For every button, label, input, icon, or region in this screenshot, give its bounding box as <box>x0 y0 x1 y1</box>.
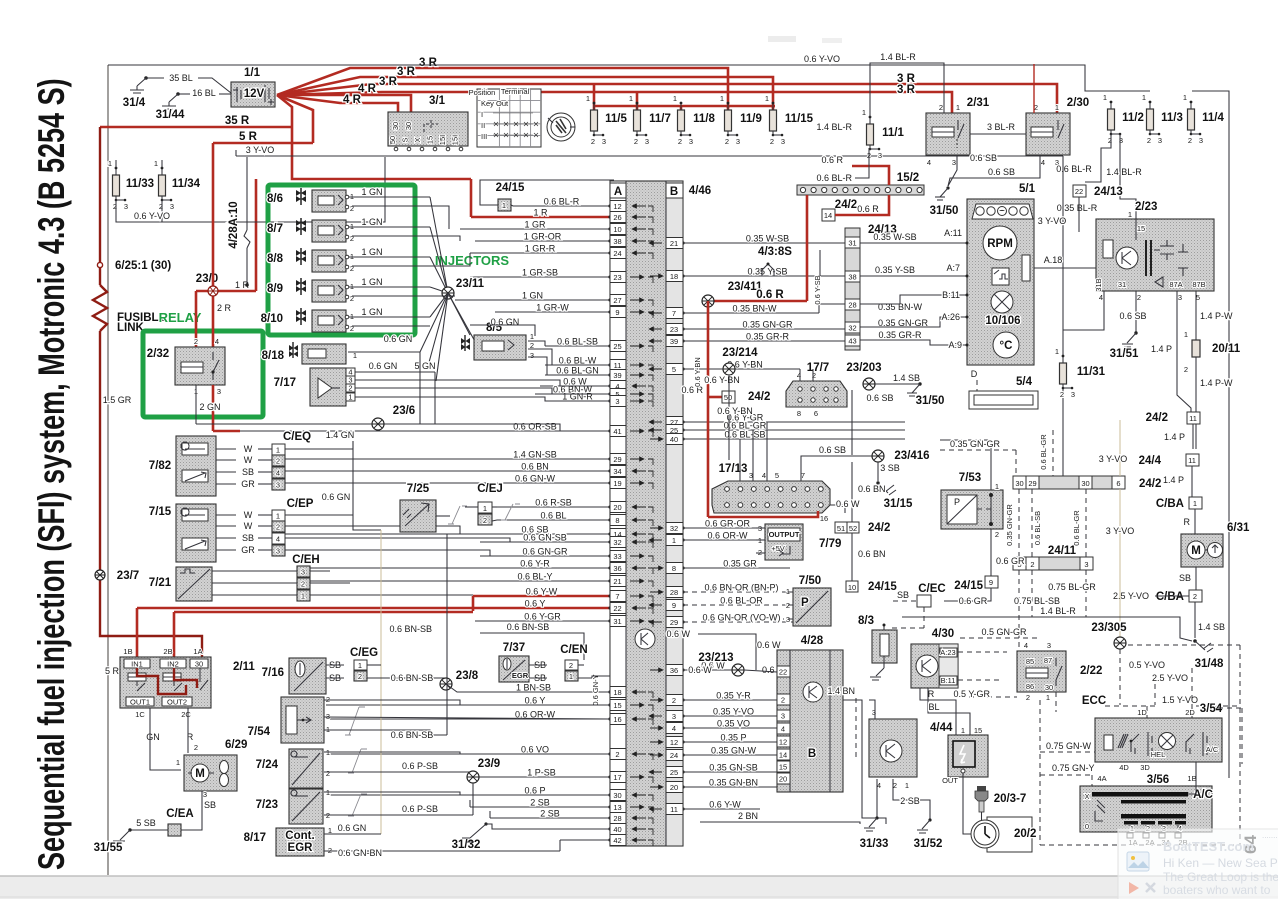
svg-text:3: 3 <box>781 137 785 146</box>
svg-text:1 P-SB: 1 P-SB <box>527 768 556 778</box>
svg-text:2: 2 <box>350 264 354 273</box>
svg-text:Sequential fuel injection (SFI: Sequential fuel injection (SFI) system, … <box>31 78 72 870</box>
svg-text:HEL: HEL <box>1151 750 1166 759</box>
svg-text:0.6 W: 0.6 W <box>666 629 690 639</box>
svg-text:11/4: 11/4 <box>1202 112 1224 124</box>
svg-text:0.6 BL-R: 0.6 BL-R <box>544 197 580 207</box>
svg-text:0.6 BL-OR: 0.6 BL-OR <box>720 596 763 606</box>
svg-text:C/BA: C/BA <box>1156 591 1184 603</box>
svg-text:0.6 GN-SB: 0.6 GN-SB <box>523 533 567 543</box>
svg-text:1 BN-SB: 1 BN-SB <box>516 683 551 693</box>
svg-text:Cont.: Cont. <box>285 830 314 842</box>
svg-text:SB: SB <box>1179 573 1191 583</box>
svg-text:0.6 P-SB: 0.6 P-SB <box>402 804 438 814</box>
svg-text:C/EN: C/EN <box>560 644 587 656</box>
wire SB to C/EA <box>181 791 202 830</box>
svg-text:38: 38 <box>613 237 621 246</box>
connector A35 row <box>592 675 610 677</box>
svg-text:20/2: 20/2 <box>1014 828 1036 840</box>
svg-text:12: 12 <box>613 202 621 211</box>
svg-text:24/13: 24/13 <box>1094 186 1123 198</box>
svg-text:2D: 2D <box>1185 708 1195 717</box>
svg-text:0.35 Y-VO: 0.35 Y-VO <box>713 707 754 717</box>
red wires 0.6 Y-W / 0.6 Y <box>472 596 475 611</box>
svg-text:0.6 BN-SB: 0.6 BN-SB <box>389 624 432 634</box>
svg-text:1 GN: 1 GN <box>361 187 382 197</box>
svg-text:0.6 GN: 0.6 GN <box>384 334 413 344</box>
svg-text:2: 2 <box>893 781 897 790</box>
red drop 23/411 to 17/13 and 50 box <box>707 301 710 517</box>
svg-text:°C: °C <box>1000 340 1013 352</box>
connector 24/15 10 <box>846 581 858 592</box>
svg-text:II: II <box>481 121 485 130</box>
svg-text:C/EA: C/EA <box>166 808 193 820</box>
svg-text:2: 2 <box>672 696 676 705</box>
green highlight injectors box <box>268 185 415 335</box>
svg-text:1: 1 <box>961 726 965 735</box>
svg-text:0.6 SB: 0.6 SB <box>866 393 893 403</box>
svg-text:24/4: 24/4 <box>1139 455 1162 467</box>
svg-text:0.6 Y-GR: 0.6 Y-GR <box>524 612 561 622</box>
wire 0.6 SB to 31/51 <box>1135 291 1137 333</box>
svg-text:OUT1: OUT1 <box>130 698 150 707</box>
B-side wire rows <box>683 242 845 244</box>
svg-text:W: W <box>244 510 253 520</box>
wire 0.6 BN vertical <box>851 462 853 522</box>
svg-text:B:11: B:11 <box>941 676 956 685</box>
svg-text:2: 2 <box>725 137 729 146</box>
svg-text:0.6 BL-GR: 0.6 BL-GR <box>1072 510 1081 546</box>
svg-text:2: 2 <box>995 530 999 539</box>
svg-text:87B: 87B <box>1192 280 1205 289</box>
svg-text:1 GR-R: 1 GR-R <box>525 244 556 254</box>
ignition coil (4/44 right) <box>948 735 988 777</box>
svg-text:12: 12 <box>779 738 787 747</box>
svg-text:2 SB: 2 SB <box>900 796 920 806</box>
wire 0.6 Y-VO drop to 2/30 <box>1033 64 1035 113</box>
svg-text:28: 28 <box>848 301 856 310</box>
svg-text:1: 1 <box>720 94 724 103</box>
svg-text:III: III <box>481 132 487 141</box>
svg-text:29: 29 <box>1028 479 1036 488</box>
svg-text:6/25:1 (30): 6/25:1 (30) <box>115 260 171 272</box>
svg-text:0.6 GN-BN: 0.6 GN-BN <box>338 848 382 858</box>
svg-text:15/2: 15/2 <box>897 172 919 184</box>
svg-text:7: 7 <box>615 592 619 601</box>
svg-text:7/53: 7/53 <box>959 472 981 484</box>
svg-text:3: 3 <box>124 202 128 211</box>
wire 3 Y-VO right vertical <box>1062 156 1064 356</box>
svg-text:4: 4 <box>215 337 219 346</box>
ignition power stage (4/44 left) <box>869 719 917 777</box>
wire 0.6 SB from 23/416 <box>801 456 872 481</box>
svg-text:+5V: +5V <box>771 544 785 553</box>
svg-text:4/28A:10: 4/28A:10 <box>228 201 240 248</box>
svg-text:8/9: 8/9 <box>267 283 283 295</box>
svg-text:1: 1 <box>276 512 280 521</box>
svg-text:31: 31 <box>848 239 856 248</box>
svg-text:0.6 VO: 0.6 VO <box>521 745 549 755</box>
svg-text:GN: GN <box>146 732 160 742</box>
svg-text:SB: SB <box>897 590 909 600</box>
svg-text:23: 23 <box>670 325 678 334</box>
red bus 15/2 strip <box>797 185 924 195</box>
wire 1.4 P via 24/2 11 <box>1177 291 1191 412</box>
svg-text:A:7: A:7 <box>946 263 960 273</box>
svg-text:0.6 P: 0.6 P <box>524 786 545 796</box>
svg-text:4/28: 4/28 <box>801 635 824 647</box>
frame left edge <box>107 65 109 875</box>
svg-text:Hi Ken — New Sea Pro: Hi Ken — New Sea Pro <box>1163 856 1278 870</box>
svg-text:W: W <box>244 521 253 531</box>
svg-text:0.6 SB: 0.6 SB <box>970 153 997 163</box>
svg-text:1: 1 <box>276 446 280 455</box>
svg-text:X: X <box>1084 792 1089 801</box>
svg-text:2/30: 2/30 <box>1067 97 1089 109</box>
svg-text:1.4 BL-R: 1.4 BL-R <box>1040 606 1076 616</box>
fuse 11/7 <box>634 110 641 131</box>
svg-text:0.6 GN-GR: 0.6 GN-GR <box>522 547 568 557</box>
ground 31/4 <box>144 76 148 80</box>
svg-text:23/214: 23/214 <box>722 347 758 359</box>
svg-text:11/8: 11/8 <box>693 113 715 125</box>
svg-text:11/2: 11/2 <box>1122 112 1144 124</box>
svg-text:15I: 15I <box>438 135 447 145</box>
svg-text:18: 18 <box>670 272 678 281</box>
svg-text:1.4 P-W: 1.4 P-W <box>1200 378 1233 388</box>
svg-text:41: 41 <box>613 427 621 436</box>
svg-text:EGR: EGR <box>512 671 529 680</box>
svg-text:11/31: 11/31 <box>1077 366 1106 378</box>
svg-text:29: 29 <box>613 455 621 464</box>
svg-text:3 Y-VO: 3 Y-VO <box>246 145 275 155</box>
svg-text:27: 27 <box>613 296 621 305</box>
svg-text:24: 24 <box>613 249 621 258</box>
red wires inside 2/11 <box>137 668 186 694</box>
svg-text:3 R: 3 R <box>897 84 916 96</box>
svg-text:C/EQ: C/EQ <box>283 431 311 443</box>
svg-text:1 GN: 1 GN <box>361 277 382 287</box>
svg-text:0.6 BL-SB: 0.6 BL-SB <box>724 430 765 440</box>
svg-text:0.6 Y: 0.6 Y <box>525 599 546 609</box>
svg-text:87A: 87A <box>1169 280 1182 289</box>
svg-text:7/54: 7/54 <box>248 726 271 738</box>
svg-text:Terminal: Terminal <box>501 87 530 96</box>
svg-text:1B: 1B <box>1187 774 1196 783</box>
svg-text:C/EC: C/EC <box>918 583 945 595</box>
svg-text:31: 31 <box>613 617 621 626</box>
svg-text:0.6 Y-W: 0.6 Y-W <box>709 800 741 810</box>
svg-text:4A: 4A <box>1097 774 1106 783</box>
svg-text:0.35 W-SB: 0.35 W-SB <box>746 234 789 244</box>
svg-text:1: 1 <box>348 393 352 402</box>
svg-text:3: 3 <box>952 158 956 167</box>
svg-text:15: 15 <box>974 726 982 735</box>
svg-text:1 GN: 1 GN <box>361 247 382 257</box>
svg-text:38: 38 <box>848 273 856 282</box>
svg-text:7/15: 7/15 <box>149 506 172 518</box>
svg-text:36: 36 <box>670 666 678 675</box>
svg-text:4: 4 <box>1041 158 1045 167</box>
svg-text:20: 20 <box>779 775 787 784</box>
svg-text:4: 4 <box>672 724 676 733</box>
svg-text:24/2: 24/2 <box>1146 412 1168 424</box>
svg-text:1: 1 <box>530 332 534 341</box>
A-side wire rows <box>513 205 610 207</box>
svg-text:1B: 1B <box>123 647 132 656</box>
svg-text:4: 4 <box>927 158 931 167</box>
connector 24/2 50 <box>708 396 722 399</box>
wires from rows to 17/13 <box>739 439 741 481</box>
svg-text:3: 3 <box>1199 136 1203 145</box>
svg-text:24/15: 24/15 <box>868 581 897 593</box>
svg-text:1.5 GR: 1.5 GR <box>103 395 132 405</box>
svg-text:7/24: 7/24 <box>256 759 279 771</box>
svg-text:2: 2 <box>678 137 682 146</box>
svg-text:3 Y-VO: 3 Y-VO <box>1099 454 1128 464</box>
svg-text:3: 3 <box>530 351 534 360</box>
connector 4/46 central strip <box>610 181 683 846</box>
svg-text:1: 1 <box>569 672 573 681</box>
svg-text:........: ........ <box>1262 831 1278 840</box>
svg-text:A/C: A/C <box>1206 745 1219 754</box>
svg-text:23: 23 <box>613 273 621 282</box>
fuse 11/15 <box>770 110 777 131</box>
svg-text:31/33: 31/33 <box>860 838 889 850</box>
svg-text:5/4: 5/4 <box>1016 376 1033 388</box>
fuse 11/1 <box>867 124 874 145</box>
svg-text:11: 11 <box>1188 456 1196 465</box>
connector 24/13 column <box>845 228 860 350</box>
svg-text:86: 86 <box>1026 682 1034 691</box>
svg-text:2: 2 <box>350 324 354 333</box>
svg-text:2: 2 <box>348 384 352 393</box>
ignition position table <box>477 89 541 147</box>
svg-text:B: B <box>808 748 816 760</box>
svg-text:30: 30 <box>1045 683 1053 692</box>
svg-text:0.6 BL-Y: 0.6 BL-Y <box>517 572 552 582</box>
svg-text:RPM: RPM <box>987 238 1013 250</box>
svg-text:3: 3 <box>749 471 753 480</box>
svg-text:31B: 31B <box>1094 278 1103 291</box>
svg-text:6: 6 <box>814 409 818 418</box>
node K symbol in connector <box>635 629 655 649</box>
svg-text:GR: GR <box>241 479 255 489</box>
svg-text:A:23: A:23 <box>940 648 955 657</box>
svg-text:8/8: 8/8 <box>267 253 284 265</box>
svg-text:23/416: 23/416 <box>894 450 929 462</box>
svg-text:1: 1 <box>1184 330 1188 339</box>
svg-text:0.6 Y-VO: 0.6 Y-VO <box>804 54 840 64</box>
svg-text:0.6 BN-SB: 0.6 BN-SB <box>391 673 434 683</box>
svg-text:7: 7 <box>801 471 805 480</box>
svg-text:LINK: LINK <box>117 322 145 334</box>
svg-text:2: 2 <box>1193 592 1197 601</box>
svg-text:5: 5 <box>775 471 779 480</box>
dashed 24/11 to 2/22 <box>1018 570 1020 647</box>
svg-text:23/203: 23/203 <box>846 362 881 374</box>
fuse 11/33 <box>113 175 120 196</box>
svg-text:15: 15 <box>779 763 787 772</box>
svg-text:8/10: 8/10 <box>261 313 283 325</box>
svg-text:1: 1 <box>905 781 909 790</box>
svg-text:22: 22 <box>613 604 621 613</box>
svg-text:2: 2 <box>326 769 330 778</box>
svg-text:5 SB: 5 SB <box>136 818 156 828</box>
svg-text:23/11: 23/11 <box>456 278 485 290</box>
svg-text:0.6 GR: 0.6 GR <box>996 556 1025 566</box>
svg-text:7/23: 7/23 <box>256 799 278 811</box>
svg-text:36: 36 <box>613 564 621 573</box>
svg-text:7/37: 7/37 <box>503 642 525 654</box>
svg-text:2: 2 <box>194 337 198 346</box>
connector strip 24/2 right <box>1013 476 1124 489</box>
wire A.18 <box>1034 268 1102 291</box>
svg-text:C/EH: C/EH <box>292 554 319 566</box>
svg-text:3: 3 <box>276 547 280 556</box>
svg-text:23/213: 23/213 <box>698 652 733 664</box>
svg-text:12V: 12V <box>244 88 265 100</box>
overlay photo icon <box>1127 852 1149 871</box>
svg-text:1/1: 1/1 <box>244 67 261 79</box>
dashed wires around 2/22 <box>960 637 1040 639</box>
svg-text:11/34: 11/34 <box>172 178 201 190</box>
svg-text:0.6 GN: 0.6 GN <box>338 823 367 833</box>
svg-text:1: 1 <box>1183 93 1187 102</box>
svg-text:31/48: 31/48 <box>1195 658 1224 670</box>
svg-text:4/30: 4/30 <box>932 628 954 640</box>
svg-text:23/9: 23/9 <box>478 758 500 770</box>
svg-text:1.4 GN: 1.4 GN <box>326 430 355 440</box>
svg-text:32: 32 <box>848 324 856 333</box>
svg-text:OUT: OUT <box>942 776 958 785</box>
svg-text:3: 3 <box>301 568 305 577</box>
svg-text:4: 4 <box>276 535 280 544</box>
node 23/416 <box>872 450 884 462</box>
svg-text:0.6 Y-SB: 0.6 Y-SB <box>813 275 822 304</box>
svg-text:2: 2 <box>194 743 198 752</box>
svg-text:4: 4 <box>1024 641 1028 650</box>
svg-text:23/7: 23/7 <box>117 570 139 582</box>
svg-text:0.6 Y-VO: 0.6 Y-VO <box>134 211 170 221</box>
svg-text:6: 6 <box>1116 479 1120 488</box>
svg-text:0.6 Y-BN: 0.6 Y-BN <box>704 375 740 385</box>
svg-text:2 R: 2 R <box>217 303 232 313</box>
svg-text:A.18: A.18 <box>1044 255 1063 265</box>
svg-text:0.6 BN: 0.6 BN <box>521 462 549 472</box>
svg-text:13: 13 <box>613 803 621 812</box>
svg-text:A: A <box>614 186 622 198</box>
svg-text:C/EP: C/EP <box>287 498 314 510</box>
svg-text:1.4 P: 1.4 P <box>1163 475 1184 485</box>
svg-text:5 GN: 5 GN <box>414 361 435 371</box>
svg-text:OUTPUT: OUTPUT <box>769 530 800 539</box>
svg-text:3/56: 3/56 <box>1147 774 1169 786</box>
svg-text:1D: 1D <box>1137 708 1147 717</box>
svg-text:14: 14 <box>824 211 832 220</box>
svg-text:11/3: 11/3 <box>1161 112 1183 124</box>
svg-text:18: 18 <box>613 688 621 697</box>
svg-text:32: 32 <box>670 524 678 533</box>
wire 5 R <box>213 142 313 145</box>
svg-text:SB: SB <box>242 467 254 477</box>
svg-text:5: 5 <box>672 365 676 374</box>
svg-text:1.4 BN: 1.4 BN <box>827 686 855 696</box>
svg-text:7/82: 7/82 <box>149 460 171 472</box>
svg-text:5 R: 5 R <box>105 666 120 676</box>
svg-text:1C: 1C <box>135 710 145 719</box>
svg-text:M: M <box>1191 545 1201 557</box>
3 Y-VO tan vertical <box>1119 420 1121 476</box>
svg-text:6/31: 6/31 <box>1227 522 1250 534</box>
svg-text:23/6: 23/6 <box>393 405 415 417</box>
svg-text:0.35 Y-SB: 0.35 Y-SB <box>875 265 915 275</box>
svg-text:8/7: 8/7 <box>267 223 283 235</box>
svg-text:0.6 BN: 0.6 BN <box>858 484 886 494</box>
svg-text:25: 25 <box>670 768 678 777</box>
svg-text:2 GN: 2 GN <box>199 402 220 412</box>
svg-text:1: 1 <box>1055 103 1059 112</box>
svg-text:1: 1 <box>765 94 769 103</box>
svg-text:0.35 Y-R: 0.35 Y-R <box>716 691 751 701</box>
svg-text:23/305: 23/305 <box>1091 622 1127 634</box>
svg-text:0.75 BL-SB: 0.75 BL-SB <box>1014 596 1060 606</box>
svg-text:C/EJ: C/EJ <box>477 483 503 495</box>
svg-text:1.4 BL-R: 1.4 BL-R <box>1106 167 1142 177</box>
svg-text:1 GN: 1 GN <box>522 291 543 301</box>
svg-text:3: 3 <box>170 202 174 211</box>
ground 31/44 <box>176 92 180 96</box>
svg-text:2: 2 <box>1188 136 1192 145</box>
svg-text:A:11: A:11 <box>944 228 962 238</box>
svg-text:IN1: IN1 <box>131 660 143 669</box>
svg-text:9: 9 <box>615 308 619 317</box>
svg-text:1.4 SB: 1.4 SB <box>1198 622 1225 632</box>
svg-text:31/4: 31/4 <box>123 97 146 109</box>
svg-text:0.75 GN-W: 0.75 GN-W <box>1046 741 1092 751</box>
fuse 11/31 <box>1060 363 1067 384</box>
svg-text:29: 29 <box>670 618 678 627</box>
svg-text:3/54: 3/54 <box>1200 703 1223 715</box>
svg-text:2.5 Y-VO: 2.5 Y-VO <box>1152 673 1188 683</box>
connector 24/13 22 <box>1073 185 1086 197</box>
svg-text:0.35 BN-W: 0.35 BN-W <box>732 304 777 314</box>
svg-text:51: 51 <box>837 524 845 533</box>
svg-text:0.5 Y-GR: 0.5 Y-GR <box>953 689 990 699</box>
red drop from 15/2 to 23/411 <box>806 195 809 301</box>
svg-text:2: 2 <box>781 696 785 705</box>
svg-text:1: 1 <box>1103 93 1107 102</box>
svg-text:40: 40 <box>613 825 621 834</box>
wire row 42 link <box>559 840 561 851</box>
svg-text:0.75 BL-GR: 0.75 BL-GR <box>1048 582 1096 592</box>
svg-text:1: 1 <box>154 159 158 168</box>
svg-text:23/8: 23/8 <box>456 670 479 682</box>
svg-text:3: 3 <box>1158 136 1162 145</box>
svg-text:0.35 GN-SB: 0.35 GN-SB <box>709 763 758 773</box>
svg-text:11/33: 11/33 <box>126 178 154 190</box>
svg-text:0.6 W: 0.6 W <box>688 665 712 675</box>
svg-text:1.4 P-W: 1.4 P-W <box>1200 311 1233 321</box>
svg-text:16: 16 <box>820 514 828 523</box>
svg-text:0.6 Y-BN: 0.6 Y-BN <box>717 406 753 416</box>
svg-text:0.6 Y-BN: 0.6 Y-BN <box>693 357 702 387</box>
wire from 7/53 pin1 up <box>940 440 991 484</box>
svg-text:2/31: 2/31 <box>967 97 990 109</box>
svg-text:5/1: 5/1 <box>1019 183 1036 195</box>
svg-text:8/18: 8/18 <box>262 350 285 362</box>
svg-text:0.6 BL-GN: 0.6 BL-GN <box>556 366 599 376</box>
